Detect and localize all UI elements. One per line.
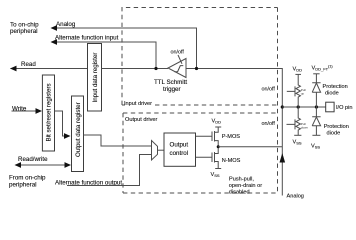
- arrowhead read/write left: [15, 162, 22, 168]
- transistor N-MOS: [196, 147, 219, 169]
- svg-text:diode: diode: [325, 91, 339, 97]
- svg-text:disabled: disabled: [229, 190, 250, 196]
- arrowhead analog up: [280, 153, 286, 163]
- arrowhead BSRR to ODR: [64, 133, 71, 139]
- dashed box input driver: [122, 8, 278, 106]
- power terminal VDD bar: [215, 126, 221, 128]
- wire BSRR to ODR elbow: [55, 111, 67, 136]
- wire pad vertical with analog bottom: [281, 107, 283, 196]
- protection diode lower: [312, 107, 320, 135]
- svg-text:VDD: VDD: [212, 119, 222, 125]
- wire on/off to pull-up gate: [287, 86, 295, 96]
- power terminal VDD bar (pull-up): [295, 73, 301, 75]
- svg-text:Input data register: Input data register: [92, 53, 99, 103]
- resistor pull-down: [296, 107, 300, 135]
- svg-text:VSS: VSS: [311, 144, 320, 150]
- svg-text:on/off: on/off: [171, 50, 185, 56]
- svg-text:Alternate function input: Alternate function input: [55, 35, 119, 42]
- svg-text:TTL Schmitt: TTL Schmitt: [154, 79, 187, 86]
- svg-text:VSS: VSS: [211, 172, 220, 178]
- wire read/write double arrow to output data register: [18, 164, 67, 166]
- register box: output data register: [72, 96, 84, 172]
- svg-text:Analog: Analog: [56, 21, 76, 28]
- protection diode upper: [312, 74, 320, 107]
- svg-text:N-MOS: N-MOS: [222, 158, 241, 164]
- node junction diode column: [315, 105, 318, 108]
- svg-text:Input driver: Input driver: [124, 101, 152, 107]
- svg-text:peripheral: peripheral: [9, 182, 37, 189]
- power terminal VDD_FT bar: [313, 73, 319, 75]
- op-amp TTL Schmitt trigger: [168, 59, 186, 78]
- svg-text:Analog: Analog: [287, 194, 304, 200]
- power terminal VSS bar (output driver): [215, 168, 221, 170]
- power terminal VSS bar (pull-down): [294, 134, 301, 136]
- dashed box output driver: [123, 8, 278, 194]
- arrowhead read/write right: [65, 162, 72, 168]
- node junction analog tap: [195, 67, 198, 70]
- svg-text:trigger: trigger: [163, 86, 181, 93]
- svg-text:Bit set/reset registers: Bit set/reset registers: [46, 83, 53, 141]
- svg-text:control: control: [170, 150, 189, 157]
- node junction pad/schmitt: [281, 105, 284, 108]
- block output control: [164, 133, 196, 166]
- svg-text:P-MOS: P-MOS: [222, 134, 241, 140]
- svg-text:Protection: Protection: [324, 124, 349, 130]
- register box: bit set/reset registers: [42, 75, 54, 151]
- svg-text:Read: Read: [21, 61, 36, 68]
- svg-text:down: down: [301, 125, 309, 129]
- wire mux output to output control: [158, 149, 165, 151]
- svg-text:VSS: VSS: [293, 140, 302, 146]
- svg-text:Output driver: Output driver: [125, 117, 157, 123]
- wire alternate function output to mux input 2: [67, 155, 152, 186]
- svg-text:open-drain or: open-drain or: [229, 183, 262, 189]
- wire ODR to mux input 1: [84, 135, 152, 146]
- arrowhead alternate function input: [51, 39, 58, 45]
- wire schmitt output to input data register: [102, 68, 169, 70]
- wire on/off to pull-down gate: [287, 119, 296, 129]
- arrowhead analog left: [51, 25, 58, 31]
- svg-text:on/off: on/off: [262, 87, 276, 93]
- node junction pull-up/down column: [297, 105, 300, 108]
- wire transistor output to pad line: [218, 146, 282, 148]
- pad I/O pin square: [326, 102, 334, 112]
- transistor P-MOS: [196, 127, 219, 147]
- label pull-up tiny: [301, 88, 306, 95]
- power terminal VSS bar (lower diode): [312, 134, 320, 136]
- svg-text:on/off: on/off: [262, 121, 276, 127]
- label To on-chip peripheral: [10, 22, 39, 36]
- svg-text:Output data register: Output data register: [75, 102, 82, 157]
- node junction transistor output: [217, 145, 220, 148]
- svg-text:Read/write: Read/write: [18, 156, 48, 163]
- svg-text:From on-chip: From on-chip: [9, 175, 46, 182]
- resistor pull-up: [296, 74, 300, 107]
- wire write into bit set/reset registers: [12, 110, 38, 112]
- register box: input data register: [88, 44, 102, 112]
- wire schmitt input from pad: [186, 69, 282, 108]
- node junction alt input tap: [154, 67, 157, 70]
- svg-text:I/O pin: I/O pin: [336, 105, 352, 111]
- svg-text:diode: diode: [327, 131, 341, 137]
- mux trapezoid: [152, 141, 158, 161]
- arrowhead write: [36, 108, 43, 114]
- svg-text:Push-pull,: Push-pull,: [229, 177, 254, 183]
- label Push-pull open-drain or disabled: [229, 177, 262, 196]
- arrowhead read: [10, 66, 17, 72]
- wire on/off control to schmitt: [178, 55, 182, 64]
- svg-text:up: up: [301, 91, 305, 95]
- label From on-chip peripheral: [9, 175, 46, 189]
- label pull-down tiny: [301, 122, 309, 129]
- wire analog top: left arrow to x=196.5 then down to input line: [53, 28, 197, 69]
- wire pad line to I/O pin: [282, 106, 325, 108]
- svg-text:Output: Output: [170, 142, 189, 149]
- svg-text:peripheral: peripheral: [10, 28, 38, 35]
- wire read line to input data register: [11, 68, 88, 70]
- wire alternate function input: arrow left, taps schmitt output: [53, 42, 156, 69]
- svg-text:VDD: VDD: [293, 67, 303, 73]
- svg-text:Protection: Protection: [323, 84, 348, 90]
